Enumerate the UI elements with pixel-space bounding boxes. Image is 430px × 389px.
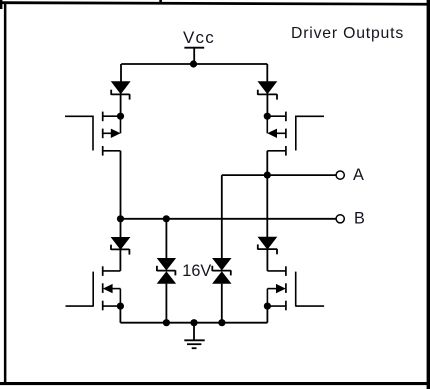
node A junction dot (264, 172, 271, 179)
border frame top bar (0, 1, 430, 5)
wire top rail (121, 63, 267, 65)
border frame top tick (159, 0, 162, 5)
wire right rail to D2 (266, 64, 268, 83)
svg-text:Vcc: Vcc (183, 28, 215, 47)
wire M3 gate lead (66, 305, 94, 307)
border frame top-left edge tick (0, 0, 2, 9)
terminal B circle (336, 215, 344, 223)
wire M1 source down to node B (120, 151, 122, 219)
node M4 source junction dot (264, 303, 271, 310)
wire M4 gate lead (296, 305, 324, 307)
wire left rail to D1 (120, 64, 122, 83)
zener diode D2 (upper right) (258, 81, 278, 99)
wire M3 source down to ground rail (119, 306, 121, 323)
zener pair Z1 (left 16V bidirectional) (157, 219, 176, 323)
wire node B down to D3 (120, 219, 122, 238)
node ground rail center dot (190, 319, 197, 326)
node B zener junction dot (163, 215, 170, 222)
svg-text:16V: 16V (182, 262, 211, 280)
node M1 drain junction dot (117, 113, 124, 120)
transistor M4 (lower right NMOS) (267, 266, 295, 310)
svg-text:B: B (354, 210, 365, 228)
transistor M1 (upper left PMOS) (93, 112, 121, 156)
transistor M3 (lower left NMOS) (93, 266, 120, 310)
ground symbol (184, 323, 204, 349)
node M3 source junction dot (117, 303, 124, 310)
transistor M2 (upper right PMOS) (267, 112, 296, 156)
wire node A down through B to Z2 top (221, 175, 223, 258)
zener pair Z2 (right 16V bidirectional) (212, 258, 231, 323)
power symbol Vcc (184, 48, 204, 64)
wire D4 to M4 drain (266, 249, 268, 271)
wire M1 gate lead (65, 115, 93, 117)
terminal A circle (336, 171, 344, 179)
zener diode D3 (lower left) (111, 237, 131, 255)
border frame bottom bar (0, 382, 430, 385)
node B left junction dot (117, 215, 124, 222)
wire output A (222, 174, 336, 176)
zener diode D1 (upper left) (111, 81, 131, 99)
wire M2 source down to node A (266, 151, 268, 175)
svg-text:Driver Outputs: Driver Outputs (291, 25, 404, 42)
border frame left bar (4, 2, 7, 385)
border frame right bar (427, 0, 430, 389)
node Vcc junction dot (190, 60, 197, 67)
node ground rail right zener dot (218, 319, 225, 326)
wire D3 to M3 drain (119, 249, 121, 271)
wire M2 gate lead (296, 115, 324, 117)
wire D1 to M1 drain (120, 94, 122, 116)
wire D2 to M2 drain (266, 94, 268, 116)
wire bottom ground rail (120, 322, 267, 324)
wire output B (121, 218, 337, 220)
node M2 drain junction dot (264, 113, 271, 120)
svg-text:A: A (353, 166, 364, 184)
wire M4 source down to ground rail (266, 306, 268, 323)
wire node A rail down to D4 (266, 175, 268, 238)
node ground rail left zener dot (163, 319, 170, 326)
zener diode D4 (lower right) (258, 237, 278, 255)
